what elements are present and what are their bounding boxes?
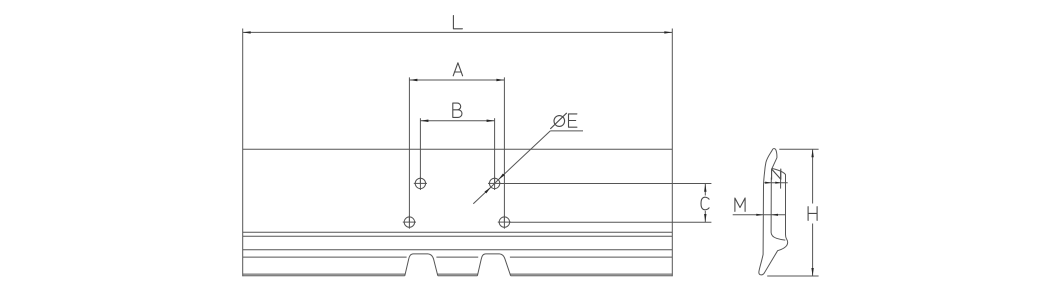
grouser line left segment xyxy=(243,256,407,258)
plate bottom edge lower line middle segment xyxy=(438,275,478,277)
plate bottom edge lower line right segment xyxy=(511,275,673,277)
arrow B right xyxy=(487,120,495,122)
bolt boss bump left xyxy=(405,254,438,276)
side profile inner fold line xyxy=(771,178,785,241)
plate right edge / L extension xyxy=(671,29,673,277)
leader ØE through-hole segment xyxy=(491,180,499,188)
plate top edge xyxy=(243,148,673,150)
plate bottom edge upper line left segment xyxy=(243,273,405,275)
arrow H bottom xyxy=(811,268,813,276)
leader ØE underline xyxy=(550,130,583,132)
hole bottom-left xyxy=(403,216,416,229)
arrow M right xyxy=(771,214,778,216)
arrow H top xyxy=(811,149,813,157)
arrow C up xyxy=(704,184,706,192)
arrow leader lower xyxy=(485,187,491,193)
dimension C line lower xyxy=(704,211,706,222)
arrow N left xyxy=(765,182,771,184)
arrow L right xyxy=(664,31,672,33)
label E of ØE xyxy=(569,114,577,127)
dimension A extension left xyxy=(408,77,410,222)
dimension H line upper xyxy=(812,149,814,203)
hole top-right xyxy=(488,177,501,190)
arrow C down xyxy=(704,214,706,222)
arrow N right xyxy=(775,182,781,184)
dimension A extension right xyxy=(503,77,505,222)
bolt boss bump right xyxy=(477,254,510,276)
leader ØE diagonal xyxy=(498,131,550,180)
dimension H extension bottom xyxy=(767,275,818,277)
dimension A line xyxy=(409,79,504,81)
dimension C line upper xyxy=(704,184,706,196)
leader ØE lower tail xyxy=(473,187,491,204)
dimension N line xyxy=(764,182,788,184)
arrow A right xyxy=(496,79,504,81)
label A xyxy=(453,63,462,76)
plate left edge / L extension xyxy=(242,29,244,277)
arrow leader upper xyxy=(498,174,504,180)
rail line third xyxy=(243,249,673,251)
rail line upper xyxy=(243,231,673,233)
dimension M line xyxy=(733,214,786,216)
label N xyxy=(772,169,781,179)
arrow B left xyxy=(420,120,428,122)
dimension B extension left xyxy=(419,118,421,183)
side profile outer outline xyxy=(759,149,788,275)
hole extension line top row xyxy=(500,183,712,185)
grouser line right segment xyxy=(510,256,672,258)
grouser line middle segment xyxy=(436,256,478,258)
dimension B line xyxy=(420,120,494,122)
dimension H line lower xyxy=(812,224,814,277)
label H xyxy=(808,207,817,221)
label C xyxy=(701,197,709,210)
label Ø of ØE xyxy=(551,113,567,128)
arrow A left xyxy=(409,79,417,81)
hole extension line bottom row xyxy=(510,221,712,223)
plate bottom edge upper line right segment xyxy=(510,273,672,275)
arrow M left xyxy=(756,214,763,216)
label B xyxy=(453,103,462,117)
side profile lip step line xyxy=(780,172,782,189)
dimension H extension top xyxy=(779,148,818,150)
plate bottom edge lower line left segment xyxy=(243,275,405,277)
plate bottom edge upper line middle segment xyxy=(438,273,478,275)
label L xyxy=(453,16,462,29)
hole bottom-right xyxy=(498,216,511,229)
rail line second xyxy=(243,235,673,237)
dimension B extension right xyxy=(494,118,496,183)
label M xyxy=(735,198,745,211)
arrow L left xyxy=(243,31,251,33)
dimension L line xyxy=(243,31,673,33)
hole top-left xyxy=(414,177,427,190)
